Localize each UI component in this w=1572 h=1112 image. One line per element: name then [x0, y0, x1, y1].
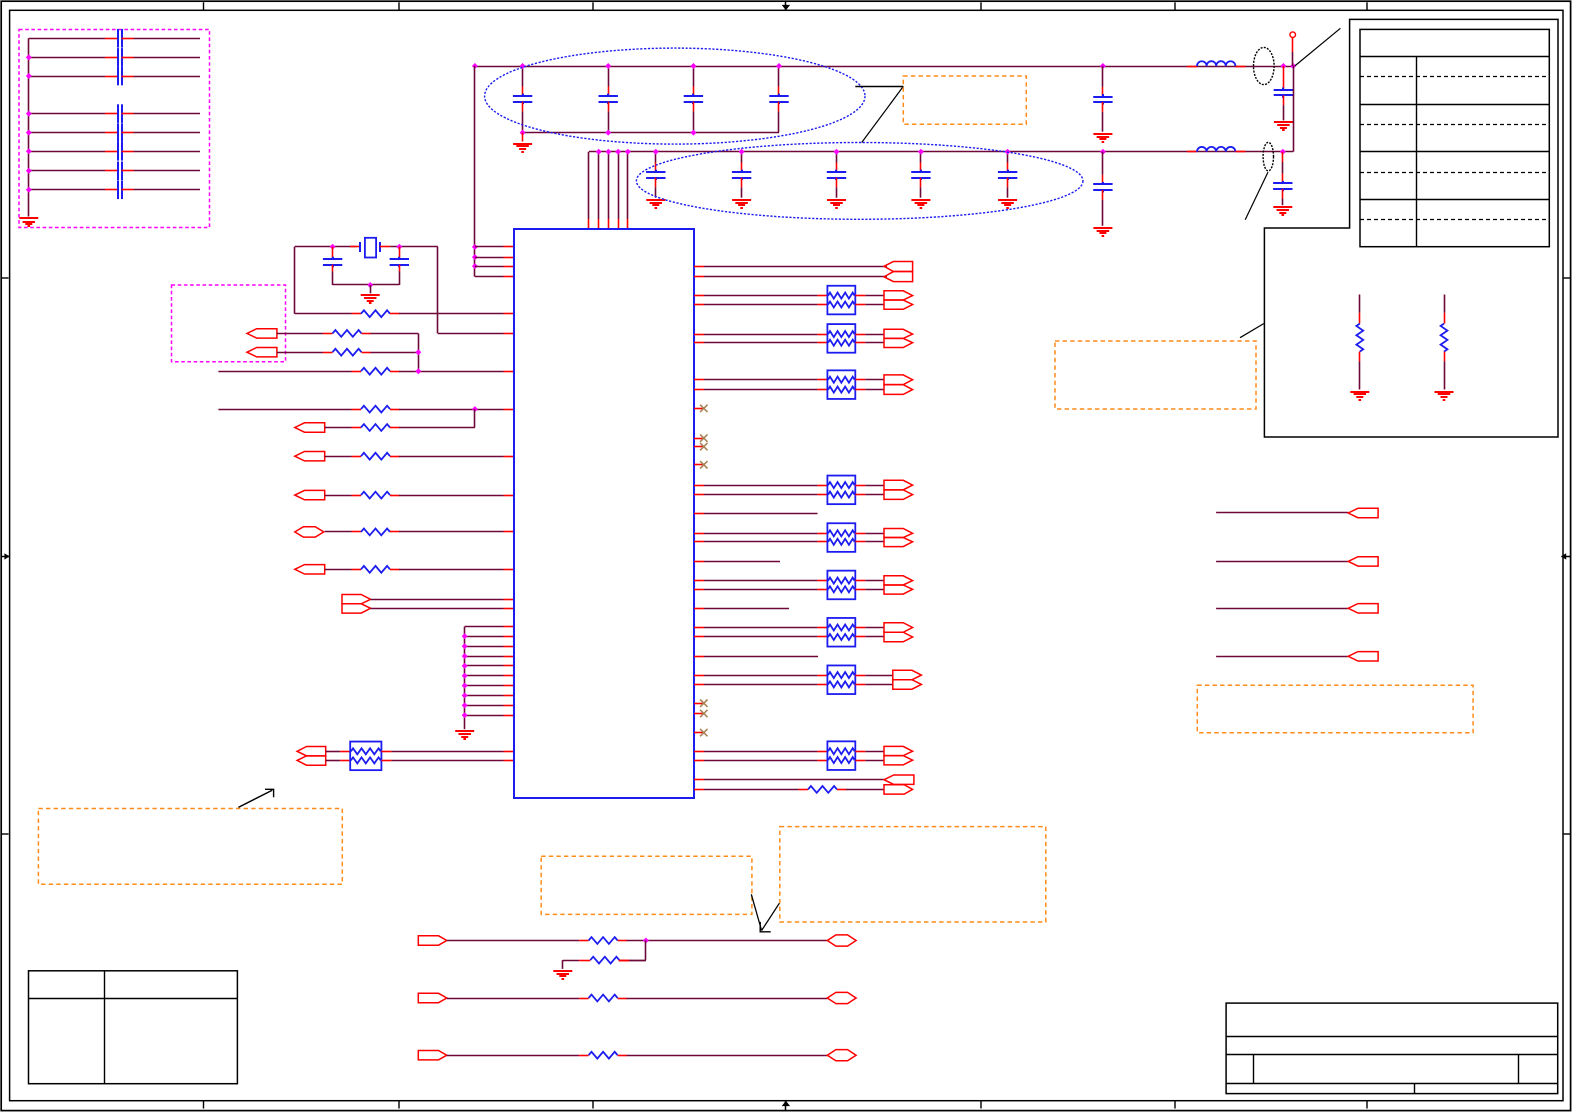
resistor pack: [827, 741, 855, 770]
wire: [865, 760, 884, 762]
IC top feed wire: [588, 152, 590, 219]
junction: [615, 149, 621, 155]
wire: [627, 940, 828, 942]
wire: [326, 751, 341, 753]
wire: [865, 494, 884, 496]
port: [1348, 557, 1378, 566]
junction: [462, 633, 468, 639]
wire: [704, 541, 817, 543]
wire: [704, 580, 817, 582]
junction: [472, 244, 478, 250]
capacitor XC2: [399, 247, 401, 260]
port C: [247, 348, 277, 357]
capacitor C22 lead: [741, 152, 743, 163]
capacitor C23: [835, 170, 837, 173]
pin wire: [465, 695, 504, 697]
wire: [704, 684, 817, 686]
wire: [399, 495, 504, 497]
no-connect: [694, 713, 704, 715]
junction: [596, 149, 602, 155]
ellipse marker around cap group 2: [636, 143, 1083, 220]
cap bank wire row 6 right: [134, 151, 201, 153]
junction: [1290, 63, 1296, 69]
wire: [371, 333, 419, 335]
wire: [325, 495, 352, 497]
wire: [629, 960, 646, 962]
ground: [1435, 391, 1454, 393]
port (out): [884, 785, 913, 794]
pin wire: [475, 246, 504, 248]
capacitor C21 lead: [655, 152, 657, 163]
revision table: [29, 971, 238, 1084]
ground: [1093, 227, 1112, 229]
ground cap group1: [513, 143, 532, 145]
wire: [295, 246, 356, 248]
wire down: [418, 333, 420, 371]
capacitor C25: [1007, 170, 1009, 173]
wire: [704, 379, 817, 381]
capacitor C3 lead: [1102, 66, 1104, 87]
IC top feed wire: [618, 152, 620, 219]
junction: [396, 244, 402, 250]
junction: [462, 663, 468, 669]
resistor: [352, 569, 362, 571]
capacitor C25 lead: [1007, 152, 1009, 163]
capacitor C14 lead: [778, 66, 780, 87]
port: [295, 452, 325, 461]
resistor RB: [323, 333, 333, 335]
crystal Y1: [350, 246, 360, 248]
capacitor C11 lead: [522, 66, 524, 87]
orange note box near note area: [1055, 341, 1256, 409]
wire: [704, 304, 817, 306]
cap bank wire row 7 right: [134, 170, 201, 172]
resistor RD: [352, 371, 362, 373]
capacitor C11: [522, 94, 524, 97]
wire: [865, 389, 884, 391]
junction rail1: [605, 63, 611, 69]
wire: [325, 531, 352, 533]
cap bank wire row 3 right: [134, 76, 201, 78]
wire: [1216, 561, 1348, 563]
capacitor XC1: [332, 257, 334, 260]
capacitor C23 lead: [836, 152, 838, 163]
wire: [391, 760, 503, 762]
junction on bus: [26, 54, 32, 60]
IC top feed wire: [598, 152, 600, 219]
wire: [704, 494, 817, 496]
center arrow right: [1561, 556, 1570, 558]
junction on bus: [26, 168, 32, 174]
wire down: [645, 941, 647, 961]
cap lead: [920, 187, 922, 197]
wire: [704, 533, 817, 535]
resistor pack: [827, 618, 855, 647]
resistor body: [1356, 324, 1363, 352]
cap bank wire row 6 left: [29, 151, 105, 153]
wire: [371, 599, 504, 601]
wire: [704, 589, 817, 591]
cap lead: [655, 187, 657, 197]
black ellipse marker on L2 output: [1263, 142, 1273, 171]
port (bidir): [827, 1050, 856, 1061]
resistor pack: [827, 523, 855, 552]
capacitor C14: [778, 94, 780, 97]
junction rail1 / IC feed: [472, 63, 478, 69]
no-connect: [694, 446, 704, 448]
junction: [520, 130, 526, 136]
dangling wire: [704, 513, 818, 515]
capacitor C21: [655, 170, 657, 173]
cap bank wire row 5 right: [134, 132, 201, 134]
junction: [415, 368, 421, 374]
junction: [1280, 149, 1286, 155]
pin wire: [475, 257, 504, 259]
wire: [846, 789, 884, 791]
wire: [704, 675, 817, 677]
port: [1348, 508, 1378, 517]
wire: [437, 247, 439, 334]
resistor pack: [827, 286, 855, 315]
junction: [1280, 63, 1286, 69]
pin wire: [465, 675, 504, 677]
zone ticks left: [2, 277, 9, 279]
lead: [1359, 361, 1361, 389]
port (out): [418, 1051, 447, 1060]
junction rail2: [918, 149, 924, 155]
resistor pack: [827, 476, 855, 505]
no-connect: [694, 464, 704, 466]
pin wire: [465, 636, 504, 638]
lead: [1444, 295, 1446, 313]
cap lead: [778, 111, 780, 132]
cap bank wire row 3 left: [29, 76, 105, 78]
junction: [462, 693, 468, 699]
wire row C: [277, 352, 323, 354]
wire: [390, 246, 438, 248]
cap bank wire row 2 right: [134, 57, 201, 59]
wire: [865, 295, 884, 297]
wire: [447, 1055, 579, 1057]
wire: [627, 1055, 828, 1057]
cap lead: [1102, 200, 1104, 226]
wire: [371, 352, 419, 354]
wire: [865, 675, 893, 677]
junction rail2: [1005, 149, 1011, 155]
resistor body: [1441, 324, 1448, 352]
capacitor C4 lead: [1102, 152, 1104, 175]
wire: [865, 304, 884, 306]
ground: [1350, 391, 1369, 393]
junction rail2 right cap: [1100, 149, 1106, 155]
capacitor C4: [1102, 182, 1104, 185]
double port: [884, 576, 913, 585]
junction: [472, 263, 478, 269]
leader line to table: [1295, 28, 1341, 66]
capacitor C24: [920, 170, 922, 173]
wire row D: [218, 371, 351, 373]
vertical join wire: [1293, 66, 1295, 152]
cap lead: [1283, 105, 1285, 120]
ground of cap bank: [19, 217, 38, 219]
resistor pack: [827, 571, 855, 600]
cap bank wire row 8 left: [29, 189, 105, 191]
junction on bus: [26, 148, 32, 154]
port (bidir): [827, 935, 856, 946]
ground under C11: [522, 133, 524, 142]
wire: [399, 409, 504, 411]
leader line from L2 marker: [1245, 172, 1268, 220]
double port bottom left: [297, 747, 326, 756]
capacitor C13 lead: [693, 66, 695, 87]
orange note box A: [38, 809, 342, 885]
port F: [295, 423, 325, 432]
resistor pack: [827, 370, 855, 399]
wire: [399, 427, 475, 429]
ground: [911, 199, 930, 201]
cap bank wire row 2 left: [29, 57, 105, 59]
IC top feed wire: [608, 152, 610, 219]
junction rail1: [690, 63, 696, 69]
resistor to gnd: [590, 957, 619, 964]
zone ticks right: [1563, 277, 1570, 279]
wire: [704, 295, 817, 297]
power rail 2: [589, 151, 1293, 153]
inductor L2: [1187, 151, 1197, 153]
center arrow left: [1, 556, 9, 558]
resistor RC: [323, 352, 333, 354]
resistor: [799, 789, 809, 791]
wire row B: [277, 333, 323, 335]
junction: [690, 130, 696, 136]
junction: [643, 938, 649, 944]
pin wire: [465, 665, 504, 667]
resistor pack: [827, 324, 855, 353]
wire: [865, 684, 893, 686]
capacitor C22: [741, 170, 743, 173]
terminal wire: [1292, 52, 1294, 66]
junction: [472, 254, 478, 260]
wire: [1216, 656, 1348, 658]
cap bank wire row 5 left: [29, 132, 105, 134]
wire: [1216, 512, 1348, 514]
cap bank wire row 8 right: [134, 189, 201, 191]
cap bank wire row 4 right: [134, 113, 201, 115]
double port: [884, 375, 913, 385]
cap lead: [1282, 199, 1284, 206]
junction: [462, 683, 468, 689]
inductor L1: [1187, 66, 1197, 68]
center arrow top: [785, 1, 787, 10]
no-connect: [694, 703, 704, 705]
double port: [884, 623, 913, 633]
wire: [399, 456, 504, 458]
lead: [1444, 361, 1446, 389]
cap lead: [399, 272, 401, 286]
capacitor bank C8: [117, 181, 119, 200]
dangling wire: [704, 561, 780, 563]
double port to IC: [342, 595, 371, 604]
wire: [399, 531, 504, 533]
power rail 1: [475, 66, 1293, 68]
capacitor C12: [607, 94, 609, 97]
junction on bus: [26, 73, 32, 79]
dangling wire: [704, 656, 818, 658]
junction: [605, 149, 611, 155]
pin wire: [475, 276, 504, 278]
junction rail1 right cap: [1100, 63, 1106, 69]
no-connect: [694, 438, 704, 440]
ground bus wire: [464, 627, 466, 730]
junction rail2: [739, 149, 745, 155]
ground: [827, 199, 846, 201]
cap bank wire row 1 right: [134, 38, 201, 40]
center arrow bottom: [785, 1101, 787, 1111]
right top pair to left-pointing double port: [694, 266, 704, 268]
ground stem: [370, 285, 372, 293]
pin wire: [465, 685, 504, 687]
wire: [865, 541, 884, 543]
ground: [646, 199, 665, 201]
leader from orange box to note area: [1240, 324, 1264, 338]
orange note box D right: [1197, 685, 1473, 732]
ground: [1273, 206, 1292, 208]
ground: [998, 199, 1017, 201]
wire: [399, 569, 504, 571]
port (bidir): [827, 992, 856, 1003]
wire: [704, 334, 817, 336]
leader lines to note box E: [855, 86, 903, 88]
cap lead: [1007, 187, 1009, 197]
resistor: [352, 495, 362, 497]
resistor: [579, 998, 589, 1000]
wire: [704, 389, 817, 391]
port (out): [418, 936, 447, 945]
wire: [371, 608, 504, 610]
junction rail1: [520, 63, 526, 69]
wire: [391, 751, 503, 753]
IC top feed wire: [627, 152, 629, 219]
capacitor C12 lead: [608, 66, 610, 87]
note area box: [1264, 19, 1558, 437]
wire: [865, 751, 884, 753]
wire: [704, 266, 887, 268]
pin wire: [475, 266, 504, 268]
resistor RF: [352, 427, 362, 429]
double port: [884, 529, 913, 538]
resistor pack: [827, 665, 855, 694]
port B: [247, 329, 277, 338]
port (in): [884, 775, 914, 784]
resistor RA: [352, 313, 362, 315]
capacitor bank C1: [117, 29, 119, 48]
wire: [704, 342, 817, 344]
resistor: [579, 940, 589, 942]
cap lead: [693, 111, 695, 132]
wire: [1216, 608, 1348, 610]
wire row A: [295, 313, 352, 315]
junction rail2: [653, 149, 659, 155]
wire: [333, 284, 400, 286]
orange note box B: [541, 856, 752, 914]
junction on bus: [26, 187, 32, 193]
wire: [704, 789, 799, 791]
junction: [605, 130, 611, 136]
capacitor C24 lead: [920, 152, 922, 163]
lead: [1359, 295, 1361, 313]
ellipse marker around cap group 1: [485, 48, 865, 144]
junction: [415, 349, 421, 355]
junction: [462, 702, 468, 708]
wire: [865, 533, 884, 535]
cap bank wire row 7 left: [29, 170, 105, 172]
wire: [704, 779, 884, 781]
ground cluster: [455, 730, 474, 732]
wire: [704, 276, 887, 278]
double port: [884, 746, 913, 755]
terminal circle: [1290, 32, 1296, 38]
capacitor C6: [1282, 181, 1284, 184]
cap bank wire row 4 left: [29, 113, 105, 115]
junction: [462, 712, 468, 718]
decoupling cap bank group box: [19, 30, 210, 228]
leader arrows to bottom circuit: [751, 894, 761, 930]
port: [295, 490, 325, 499]
zone ticks top: [203, 2, 205, 11]
double port: [893, 670, 922, 679]
wire down: [474, 409, 476, 427]
wire: [627, 998, 828, 1000]
cap lead: [1102, 112, 1104, 132]
wire: [438, 333, 504, 335]
junction on bus: [26, 111, 32, 117]
resistor: [352, 456, 362, 458]
port: [1348, 604, 1378, 613]
capacitor bank C2: [117, 48, 119, 67]
wire: [704, 636, 817, 638]
wire: [325, 456, 352, 458]
wire: [865, 627, 884, 629]
wire: [865, 636, 884, 638]
wire: [326, 760, 341, 762]
wire: [447, 940, 579, 942]
junction rail2: [834, 149, 840, 155]
junction: [330, 244, 336, 250]
pin wire: [465, 646, 504, 648]
cap group1 ground rail: [523, 132, 779, 134]
junction: [625, 149, 631, 155]
double port (in): [884, 262, 913, 272]
wire row E: [218, 409, 351, 411]
cap lead: [741, 187, 743, 197]
capacitor C5: [1282, 88, 1284, 91]
pin wire: [465, 656, 504, 658]
wire: [704, 627, 817, 629]
wire: [399, 371, 504, 373]
IC U1 body: [514, 229, 694, 798]
cap bank bus wire: [28, 38, 30, 216]
ground crystal: [361, 294, 380, 296]
wire down: [562, 960, 564, 969]
resistor RE: [352, 409, 362, 411]
capacitor bank C4: [117, 104, 119, 123]
wire: [399, 313, 504, 315]
junction on bus: [26, 130, 32, 136]
cap lead: [836, 187, 838, 197]
wire: [704, 751, 817, 753]
ground: [732, 199, 751, 201]
junction: [472, 406, 478, 412]
